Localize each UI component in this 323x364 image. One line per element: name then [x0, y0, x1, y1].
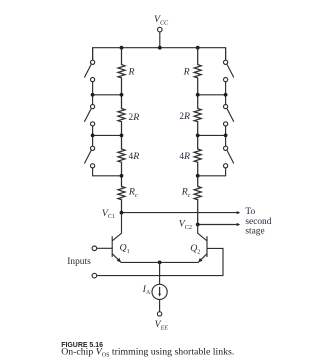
svg-text:Q2: Q2 — [190, 243, 200, 255]
svg-text:Inputs: Inputs — [67, 257, 91, 267]
svg-text:Rc: Rc — [181, 187, 191, 199]
svg-text:VEE: VEE — [155, 319, 169, 331]
svg-text:2R: 2R — [129, 112, 140, 123]
svg-text:To: To — [245, 207, 255, 217]
svg-text:IA: IA — [142, 284, 151, 296]
svg-text:VC2: VC2 — [179, 219, 192, 231]
svg-text:VCC: VCC — [154, 14, 169, 26]
svg-text:R: R — [128, 67, 135, 78]
svg-text:Rc: Rc — [128, 187, 138, 199]
svg-text:On-chip VOS trimming using sho: On-chip VOS trimming using shortable lin… — [61, 347, 234, 359]
svg-text:4R: 4R — [129, 151, 140, 162]
svg-text:Q1: Q1 — [120, 243, 130, 255]
svg-text:second: second — [245, 217, 271, 227]
svg-text:VC1: VC1 — [102, 208, 115, 220]
svg-text:4R: 4R — [179, 151, 190, 162]
svg-text:stage: stage — [245, 227, 264, 237]
svg-text:R: R — [183, 67, 190, 78]
svg-text:2R: 2R — [179, 111, 190, 122]
